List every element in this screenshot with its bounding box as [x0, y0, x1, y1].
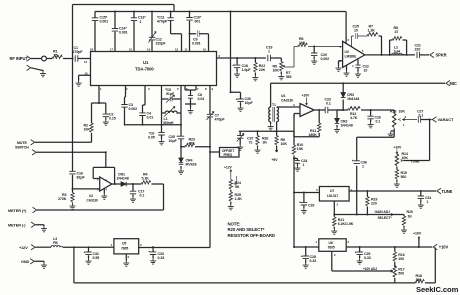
node U2 input junction	[72, 188, 74, 190]
node GND connector	[30, 259, 34, 264]
inductor L1 300nH variable	[162, 111, 182, 113]
svg-text:3: 3	[340, 45, 342, 49]
svg-text:0.33: 0.33	[310, 259, 317, 263]
svg-text:10μF: 10μF	[169, 139, 178, 143]
node U4 output junction	[342, 109, 344, 111]
wire C36 branch	[357, 131, 395, 215]
svg-text:NOTE:: NOTE:	[228, 222, 242, 227]
svg-text:FB: FB	[53, 241, 58, 245]
svg-text:13: 13	[84, 60, 87, 64]
svg-text:10: 10	[354, 29, 358, 33]
svg-text:+: +	[177, 135, 179, 139]
capacitor C30 10uF	[230, 91, 232, 93]
wire U6 output	[346, 246, 432, 248]
svg-text:220: 220	[371, 202, 377, 206]
svg-text:LM386L: LM386L	[345, 54, 357, 58]
svg-text:TUNE: TUNE	[411, 159, 421, 163]
svg-text:10: 10	[364, 69, 368, 73]
svg-text:180K: 180K	[309, 133, 318, 137]
diode CR4 MV626 varactor	[180, 146, 182, 148]
resistor R11 180K	[318, 123, 321, 132]
node junction C20	[313, 46, 315, 48]
svg-text:470pF: 470pF	[215, 118, 226, 122]
svg-text:SPKR: SPKR	[436, 53, 447, 58]
svg-text:MIC: MIC	[450, 81, 457, 86]
svg-text:2: 2	[405, 115, 407, 119]
capacitor C11 470pF	[171, 12, 182, 52]
wire U2 feedback top	[93, 167, 114, 184]
svg-text:6.2K/1.5K: 6.2K/1.5K	[338, 222, 354, 226]
node MIC connector	[446, 81, 450, 86]
wire bus under IC	[126, 124, 181, 126]
svg-text:5: 5	[177, 87, 179, 91]
svg-text:CA3130: CA3130	[87, 198, 99, 202]
wire U5 output	[139, 247, 210, 249]
op-amp U2 CA3130	[100, 177, 112, 191]
capacitor C36 1	[354, 161, 360, 164]
capacitor C9 0.001 series	[189, 33, 191, 35]
regulator U5 7805	[114, 239, 139, 254]
node VARACT connector	[432, 117, 436, 122]
svg-text:1: 1	[303, 163, 305, 167]
svg-text:MUTE: MUTE	[17, 141, 28, 145]
wire U3 minus input to ground	[339, 61, 343, 66]
wire varactor tune feed	[429, 119, 431, 121]
capacitor C21 220 series	[417, 52, 420, 58]
node junction	[151, 11, 153, 13]
node RF input connector	[27, 56, 31, 61]
svg-text:10K: 10K	[402, 156, 409, 160]
capacitor C14* 0.001	[114, 12, 116, 52]
svg-text:GND: GND	[21, 260, 30, 264]
resistor R22 22K	[254, 58, 256, 75]
svg-text:FREQ: FREQ	[224, 153, 233, 157]
node TUNE connector	[437, 188, 441, 193]
svg-text:R20 AND SELECT*: R20 AND SELECT*	[228, 227, 265, 232]
ground C6	[159, 139, 165, 145]
capacitor C27 0.1 series	[418, 116, 420, 122]
svg-text:4.7K: 4.7K	[350, 116, 358, 120]
svg-text:10K: 10K	[273, 69, 280, 73]
capacitor C13* 1	[133, 12, 135, 52]
op-amp U3 LM386L	[343, 41, 365, 67]
resistor R18 150	[415, 279, 424, 282]
svg-text:+5V: +5V	[272, 158, 279, 162]
node +10V connector	[433, 244, 437, 249]
svg-text:3: 3	[148, 87, 150, 91]
capacitor C33 0.33	[152, 246, 154, 248]
svg-text:2: 2	[126, 87, 128, 91]
wire IC pin16 to ground	[79, 75, 91, 80]
regulator U7 LM-317	[294, 192, 319, 194]
node junction	[189, 11, 191, 13]
svg-text:+: +	[299, 201, 301, 205]
resistor R2 10K	[90, 123, 93, 132]
svg-text:560: 560	[286, 75, 292, 79]
wire outer top rail	[73, 5, 175, 12]
svg-text:10K: 10K	[297, 147, 304, 151]
ground T1 left	[270, 122, 272, 124]
svg-text:CA3130: CA3130	[281, 98, 293, 102]
resistor R15 560	[396, 167, 398, 182]
resistor R10 10K	[293, 131, 295, 192]
capacitor C3 0.002	[125, 86, 126, 125]
svg-text:0.33: 0.33	[158, 256, 165, 260]
regulator U6 7805	[319, 239, 346, 252]
resistor R16 100	[394, 246, 396, 248]
svg-text:C13*: C13*	[138, 16, 146, 20]
svg-text:U6: U6	[329, 241, 333, 245]
svg-text:1K: 1K	[408, 215, 413, 219]
wire mute1	[35, 141, 92, 143]
svg-text:7805: 7805	[121, 246, 128, 250]
wire mute2	[37, 152, 106, 167]
resistor R8 47	[390, 40, 407, 55]
svg-text:+: +	[352, 159, 354, 163]
svg-text:TDA-7000: TDA-7000	[135, 67, 154, 72]
capacitor C31 1	[420, 190, 422, 192]
capacitor C5 91pF trimmer	[162, 86, 182, 125]
antenna jack circle	[42, 56, 47, 61]
wire left long vertical feedback line	[72, 5, 74, 172]
wire U7 output to TUNE	[349, 190, 436, 192]
svg-text:0.001: 0.001	[100, 20, 109, 24]
svg-text:VARACT: VARACT	[438, 117, 455, 122]
svg-text:1: 1	[111, 243, 113, 247]
svg-text:+12V: +12V	[224, 166, 233, 170]
svg-text:SELECT*: SELECT*	[378, 216, 393, 220]
svg-text:2: 2	[337, 203, 339, 207]
resistor R4 5.1K	[141, 181, 150, 184]
capacitor C16 82pF	[69, 171, 75, 174]
svg-text:0.15: 0.15	[109, 117, 116, 121]
capacitor C8 0.04	[185, 86, 196, 109]
potentiometer R5 10K volume	[280, 58, 282, 74]
svg-text:0.33: 0.33	[364, 256, 371, 260]
wire audio out pin2 right	[217, 57, 282, 59]
ground U5	[125, 254, 127, 261]
svg-text:10K: 10K	[299, 41, 306, 45]
svg-text:SWITCH: SWITCH	[15, 146, 29, 150]
wire bottom rail left	[73, 246, 75, 248]
resistor R3 270K	[72, 189, 74, 204]
node MUTE connector 2	[32, 150, 36, 155]
svg-text:1N4148: 1N4148	[341, 124, 353, 128]
node junction	[170, 11, 172, 13]
capacitor C12 220pF trimmer	[151, 12, 153, 52]
svg-text:1.0μF: 1.0μF	[242, 68, 252, 72]
resistor R26 2K	[257, 130, 259, 132]
capacitor C23 0.1 series	[325, 107, 328, 113]
resistor R6 10K	[298, 43, 307, 46]
svg-text:10K: 10K	[281, 142, 288, 146]
node +12V connector	[31, 245, 35, 250]
capacitor C35 10uF	[180, 125, 182, 147]
svg-text:9: 9	[212, 87, 214, 91]
svg-text:3: 3	[316, 188, 318, 192]
svg-text:3: 3	[140, 243, 142, 247]
svg-text:10μF: 10μF	[245, 101, 254, 105]
svg-text:001: 001	[195, 20, 201, 24]
node SPKR connector	[430, 52, 434, 57]
svg-text:0.001: 0.001	[119, 31, 128, 35]
svg-text:1N4148: 1N4148	[117, 177, 129, 181]
capacitor C1 270pF	[75, 55, 78, 61]
ground CR4	[178, 169, 184, 175]
wire to U2 plus input	[73, 188, 100, 190]
capacitor C17 0.1	[132, 183, 134, 185]
resistor R1 75	[52, 55, 62, 58]
svg-text:8: 8	[205, 87, 207, 91]
potentiometer R17 500	[394, 265, 396, 267]
capacitor C25 0.33	[359, 246, 361, 248]
svg-text:150: 150	[416, 278, 422, 282]
wire pin1 down	[92, 86, 100, 143]
capacitor C7 470pF trimmer	[207, 114, 213, 117]
wire C1 to IC pin 13	[78, 58, 90, 60]
svg-text:500: 500	[398, 272, 404, 276]
resistor R23 47K horizontal	[181, 146, 210, 148]
capacitor C2 0.15	[99, 103, 106, 120]
capacitor C29	[303, 192, 305, 194]
svg-text:1.3K: 1.3K	[235, 197, 243, 201]
svg-text:22K: 22K	[259, 68, 266, 72]
op-amp U4 CA3130	[300, 104, 314, 117]
svg-text:U2: U2	[89, 194, 93, 198]
svg-text:SeekIC.com: SeekIC.com	[416, 285, 459, 294]
svg-text:+10V ADJ: +10V ADJ	[363, 267, 377, 271]
svg-text:1: 1	[403, 123, 405, 127]
wire U6 ground pin to rail	[332, 251, 393, 272]
svg-text:C29: C29	[308, 204, 314, 208]
wire U4 plus input and feedback	[294, 110, 319, 137]
svg-text:0.01: 0.01	[147, 116, 154, 120]
capacitor C19 1 series	[268, 55, 271, 61]
svg-text:1μH: 1μH	[394, 50, 401, 54]
svg-text:+12V: +12V	[19, 246, 28, 250]
wire U4 output	[314, 109, 343, 111]
wire meter line	[37, 184, 164, 210]
svg-text:+10V: +10V	[302, 94, 311, 98]
svg-text:U5: U5	[122, 242, 126, 246]
capacitor C22 10	[357, 59, 359, 72]
capacitor C15* 0.001	[94, 12, 96, 52]
node RF shield arrow	[27, 65, 31, 70]
svg-text:7805: 7805	[328, 246, 335, 250]
ground C2	[103, 120, 109, 126]
svg-text:0.1: 0.1	[419, 113, 424, 117]
svg-text:RESISTOR OFF-BOARD: RESISTOR OFF-BOARD	[228, 233, 275, 238]
svg-text:0.55: 0.55	[93, 256, 100, 260]
wire top cap rail	[95, 11, 346, 13]
diode CR1 1N4148	[121, 182, 126, 187]
svg-text:1: 1	[427, 200, 429, 204]
svg-text:+: +	[236, 97, 238, 101]
ground shield	[40, 71, 46, 77]
svg-text:1N4148: 1N4148	[347, 97, 359, 101]
svg-text:+: +	[295, 157, 297, 161]
svg-text:0.04: 0.04	[198, 97, 205, 101]
potentiometer R24 5K	[229, 180, 232, 189]
resistor R9 10K to +5V	[276, 130, 278, 132]
svg-text:1: 1	[140, 20, 142, 24]
svg-text:GAIN ADJ: GAIN ADJ	[375, 210, 391, 214]
svg-text:82pF: 82pF	[77, 176, 86, 180]
diode CR2 1N4148	[337, 110, 343, 127]
svg-text:U1: U1	[143, 60, 149, 65]
svg-text:MV626: MV626	[186, 163, 197, 167]
capacitor C25 10 feedback	[352, 36, 368, 47]
resistor R19 220	[366, 190, 368, 192]
capacitor C32 0.55	[88, 246, 90, 248]
wiper R5 to U3 path	[283, 47, 343, 68]
svg-text:0.001: 0.001	[192, 42, 201, 46]
node junction	[133, 11, 135, 13]
capacitor C10* 001	[189, 12, 191, 52]
wire pin8 to C7/R23 line	[209, 86, 211, 248]
svg-text:1: 1	[316, 240, 318, 244]
wire U6 feed vertical	[294, 193, 319, 248]
resistor R7 1.2K feedback	[367, 33, 378, 36]
potentiometer R14 10K tune	[395, 154, 398, 166]
capacitor C24 1	[293, 158, 295, 160]
svg-text:470pF: 470pF	[157, 20, 168, 24]
svg-text:75: 75	[54, 53, 58, 57]
capacitor C4 0.01	[143, 86, 146, 125]
svg-text:METER (+): METER (+)	[8, 209, 27, 213]
svg-text:U7: U7	[330, 189, 334, 193]
wire RF input to R1	[31, 58, 52, 60]
svg-text:R13: R13	[390, 110, 396, 114]
svg-text:560: 560	[401, 175, 407, 179]
wire U7 adj rail	[334, 201, 393, 215]
resistor R25 1.3K	[230, 190, 232, 204]
svg-text:U4: U4	[281, 94, 285, 98]
svg-text:10K: 10K	[84, 128, 91, 132]
svg-text:0.1: 0.1	[326, 102, 331, 106]
svg-text:7: 7	[197, 87, 199, 91]
node METER plus connector	[33, 207, 37, 212]
capacitor C37 trimmer	[239, 131, 241, 144]
svg-text:0.1: 0.1	[376, 120, 381, 124]
op-amp U1 TDA-7000 box	[91, 52, 217, 86]
svg-text:1.2K: 1.2K	[368, 29, 376, 33]
svg-text:U3: U3	[345, 50, 349, 54]
svg-text:91pF: 91pF	[166, 92, 175, 96]
svg-text:0.05: 0.05	[148, 136, 155, 140]
svg-text:0.002: 0.002	[129, 107, 138, 111]
resistor R12 4.7K series	[343, 109, 348, 111]
node junction R22	[254, 57, 256, 59]
node junction C18	[236, 57, 238, 59]
svg-text:+10V: +10V	[439, 245, 449, 250]
node junction	[114, 11, 116, 13]
svg-text:3: 3	[348, 240, 350, 244]
capacitor C28 0.33	[305, 246, 307, 248]
wire T1 lower rail	[239, 130, 294, 132]
diode CR3 1N4148	[342, 82, 344, 84]
transformer T1	[270, 83, 272, 107]
wire MIC rail	[271, 82, 445, 84]
potentiometer R13 10K	[391, 110, 395, 131]
svg-text:1: 1	[268, 50, 270, 54]
wire T1 secondary to U4	[277, 107, 300, 131]
capacitor C18 1.0uF	[236, 58, 238, 72]
svg-text:100: 100	[398, 257, 404, 261]
svg-text:+: +	[355, 250, 357, 254]
wire U2 output	[112, 183, 121, 185]
node MUTE connector 1	[31, 140, 35, 145]
svg-text:+: +	[301, 254, 303, 258]
svg-text:270K: 270K	[58, 197, 67, 201]
svg-text:+: +	[232, 63, 234, 67]
svg-text:220: 220	[415, 48, 421, 52]
svg-text:LM-317: LM-317	[327, 194, 338, 198]
svg-text:TUNE: TUNE	[442, 189, 453, 194]
svg-text:T1: T1	[272, 103, 276, 107]
svg-text:5K: 5K	[235, 185, 240, 189]
capacitor C20 0.002	[313, 47, 315, 59]
svg-text:+: +	[148, 250, 150, 254]
svg-text:4: 4	[106, 188, 108, 192]
svg-text:0.002: 0.002	[321, 57, 330, 61]
wire R1 to C1	[63, 58, 74, 60]
box OFFSET FREQ	[210, 151, 220, 153]
svg-text:72: 72	[249, 141, 253, 145]
svg-text:47K: 47K	[189, 142, 196, 146]
svg-text:RF INPUT: RF INPUT	[10, 56, 29, 61]
wire U3 output	[365, 54, 415, 56]
svg-text:R20: R20	[407, 210, 413, 214]
svg-text:4: 4	[352, 64, 354, 68]
svg-text:+10V: +10V	[394, 146, 403, 150]
node METER minus connector	[31, 222, 35, 227]
capacitor C6 0.05	[161, 124, 163, 126]
svg-text:6: 6	[348, 38, 350, 42]
svg-text:47: 47	[395, 30, 399, 34]
svg-text:2: 2	[334, 253, 336, 257]
wire U3 pin4 ground	[346, 65, 348, 70]
resistor R21 6.2K/1.5K	[333, 215, 335, 229]
wire U2 pin4 ground	[103, 188, 105, 193]
svg-text:+10V: +10V	[413, 231, 422, 235]
resistor R20 1K gain	[393, 215, 404, 228]
inductor L3 FB	[35, 246, 51, 248]
svg-text:2: 2	[128, 255, 130, 259]
svg-text:+: +	[84, 250, 86, 254]
svg-text:270pF: 270pF	[73, 50, 84, 54]
wire supply drop to U3	[345, 12, 347, 44]
svg-text:5.1K: 5.1K	[142, 177, 150, 181]
svg-text:220pF: 220pF	[156, 42, 167, 46]
svg-text:1: 1	[100, 87, 102, 91]
svg-text:2K: 2K	[263, 141, 268, 145]
svg-text:0.1: 0.1	[140, 194, 145, 198]
capacitor C26 0.1	[370, 109, 372, 111]
svg-text:1: 1	[362, 165, 364, 169]
inductor L2	[392, 53, 405, 55]
svg-text:METER (-): METER (-)	[8, 223, 26, 227]
wire shield to ground	[31, 68, 43, 71]
svg-text:10K: 10K	[399, 110, 406, 114]
wire rail drop to MIC rail	[230, 11, 232, 13]
svg-text:5: 5	[362, 49, 364, 53]
